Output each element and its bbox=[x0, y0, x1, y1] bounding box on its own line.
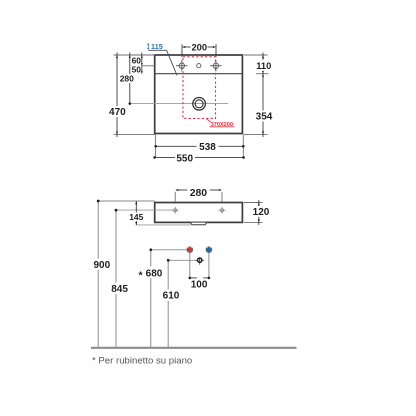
label 115 bbox=[147, 42, 163, 51]
overflow hole bbox=[197, 64, 201, 68]
drain feed line bbox=[168, 259, 196, 261]
dimension 470 bbox=[116, 53, 118, 138]
drain symbol bbox=[195, 257, 204, 264]
node 680 top bbox=[149, 248, 152, 251]
top view outline bbox=[155, 55, 243, 134]
dim line 680 vertical bbox=[150, 250, 152, 347]
leader 115 underline bbox=[148, 50, 177, 75]
outlet bump bbox=[191, 223, 207, 225]
svg-text:145: 145 bbox=[129, 212, 143, 222]
dim line 610 vertical bbox=[167, 260, 169, 347]
dimension 110 / 354 bbox=[262, 53, 264, 138]
dimension 538 bbox=[156, 145, 197, 147]
drain center line bbox=[130, 103, 229, 105]
svg-text:845: 845 bbox=[111, 284, 128, 295]
dimension 120 bbox=[258, 200, 260, 225]
hot water feed line bbox=[151, 249, 187, 251]
dimension 100 bbox=[190, 277, 197, 279]
svg-text:200: 200 bbox=[191, 41, 207, 52]
cold water symbol bbox=[206, 247, 212, 253]
svg-text:115: 115 bbox=[151, 42, 163, 51]
faucet cross right bbox=[210, 60, 222, 71]
drain double circle bbox=[193, 98, 206, 111]
red cutout dotted rect bbox=[183, 57, 216, 119]
dim line 900 vertical bbox=[97, 201, 99, 347]
svg-text:280: 280 bbox=[190, 188, 208, 199]
svg-text:680: 680 bbox=[146, 268, 163, 279]
dimension 550 bbox=[155, 156, 175, 158]
faucet cross left bbox=[176, 60, 188, 71]
svg-text:* Per rubinetto su piano: * Per rubinetto su piano bbox=[92, 355, 192, 366]
svg-text:538: 538 bbox=[199, 142, 216, 153]
bottom extension verticals bbox=[154, 135, 156, 159]
dimension 280 vertical bbox=[129, 53, 131, 104]
mounting cross right bbox=[219, 207, 226, 214]
svg-text:100: 100 bbox=[191, 280, 208, 291]
right extension ticks bbox=[244, 54, 268, 56]
dimension 200 bbox=[182, 44, 216, 57]
node 845 top bbox=[115, 209, 118, 212]
svg-text:550: 550 bbox=[176, 153, 193, 164]
dimension 145 bbox=[135, 201, 137, 225]
svg-text:354: 354 bbox=[256, 112, 273, 123]
side view outline bbox=[155, 203, 243, 223]
wall top line (900 level) bbox=[98, 200, 155, 202]
red label 370X200 bbox=[206, 119, 211, 123]
120 extension ticks bbox=[244, 202, 263, 204]
dimension 280 side bbox=[174, 192, 176, 202]
dim line 845 vertical bbox=[115, 210, 117, 347]
node 610 top bbox=[167, 259, 170, 262]
mounting cross left bbox=[172, 207, 179, 214]
outlet level line bbox=[136, 224, 191, 226]
svg-text:280: 280 bbox=[120, 74, 134, 84]
left extension lines top/bottom bbox=[114, 54, 155, 56]
svg-text:50: 50 bbox=[132, 65, 142, 75]
water symbol drop lines bbox=[189, 253, 191, 278]
deck line bbox=[155, 73, 243, 75]
node 900 top bbox=[97, 200, 100, 203]
svg-text:120: 120 bbox=[253, 207, 270, 218]
floor line bbox=[91, 347, 297, 349]
svg-text:610: 610 bbox=[163, 290, 180, 301]
dimension 60/50 chain bbox=[141, 53, 143, 74]
svg-text:110: 110 bbox=[256, 60, 271, 71]
hot water symbol bbox=[187, 247, 193, 253]
svg-text:900: 900 bbox=[93, 260, 110, 271]
svg-text:470: 470 bbox=[109, 107, 126, 118]
mounting hole line (845 level) bbox=[116, 209, 175, 211]
